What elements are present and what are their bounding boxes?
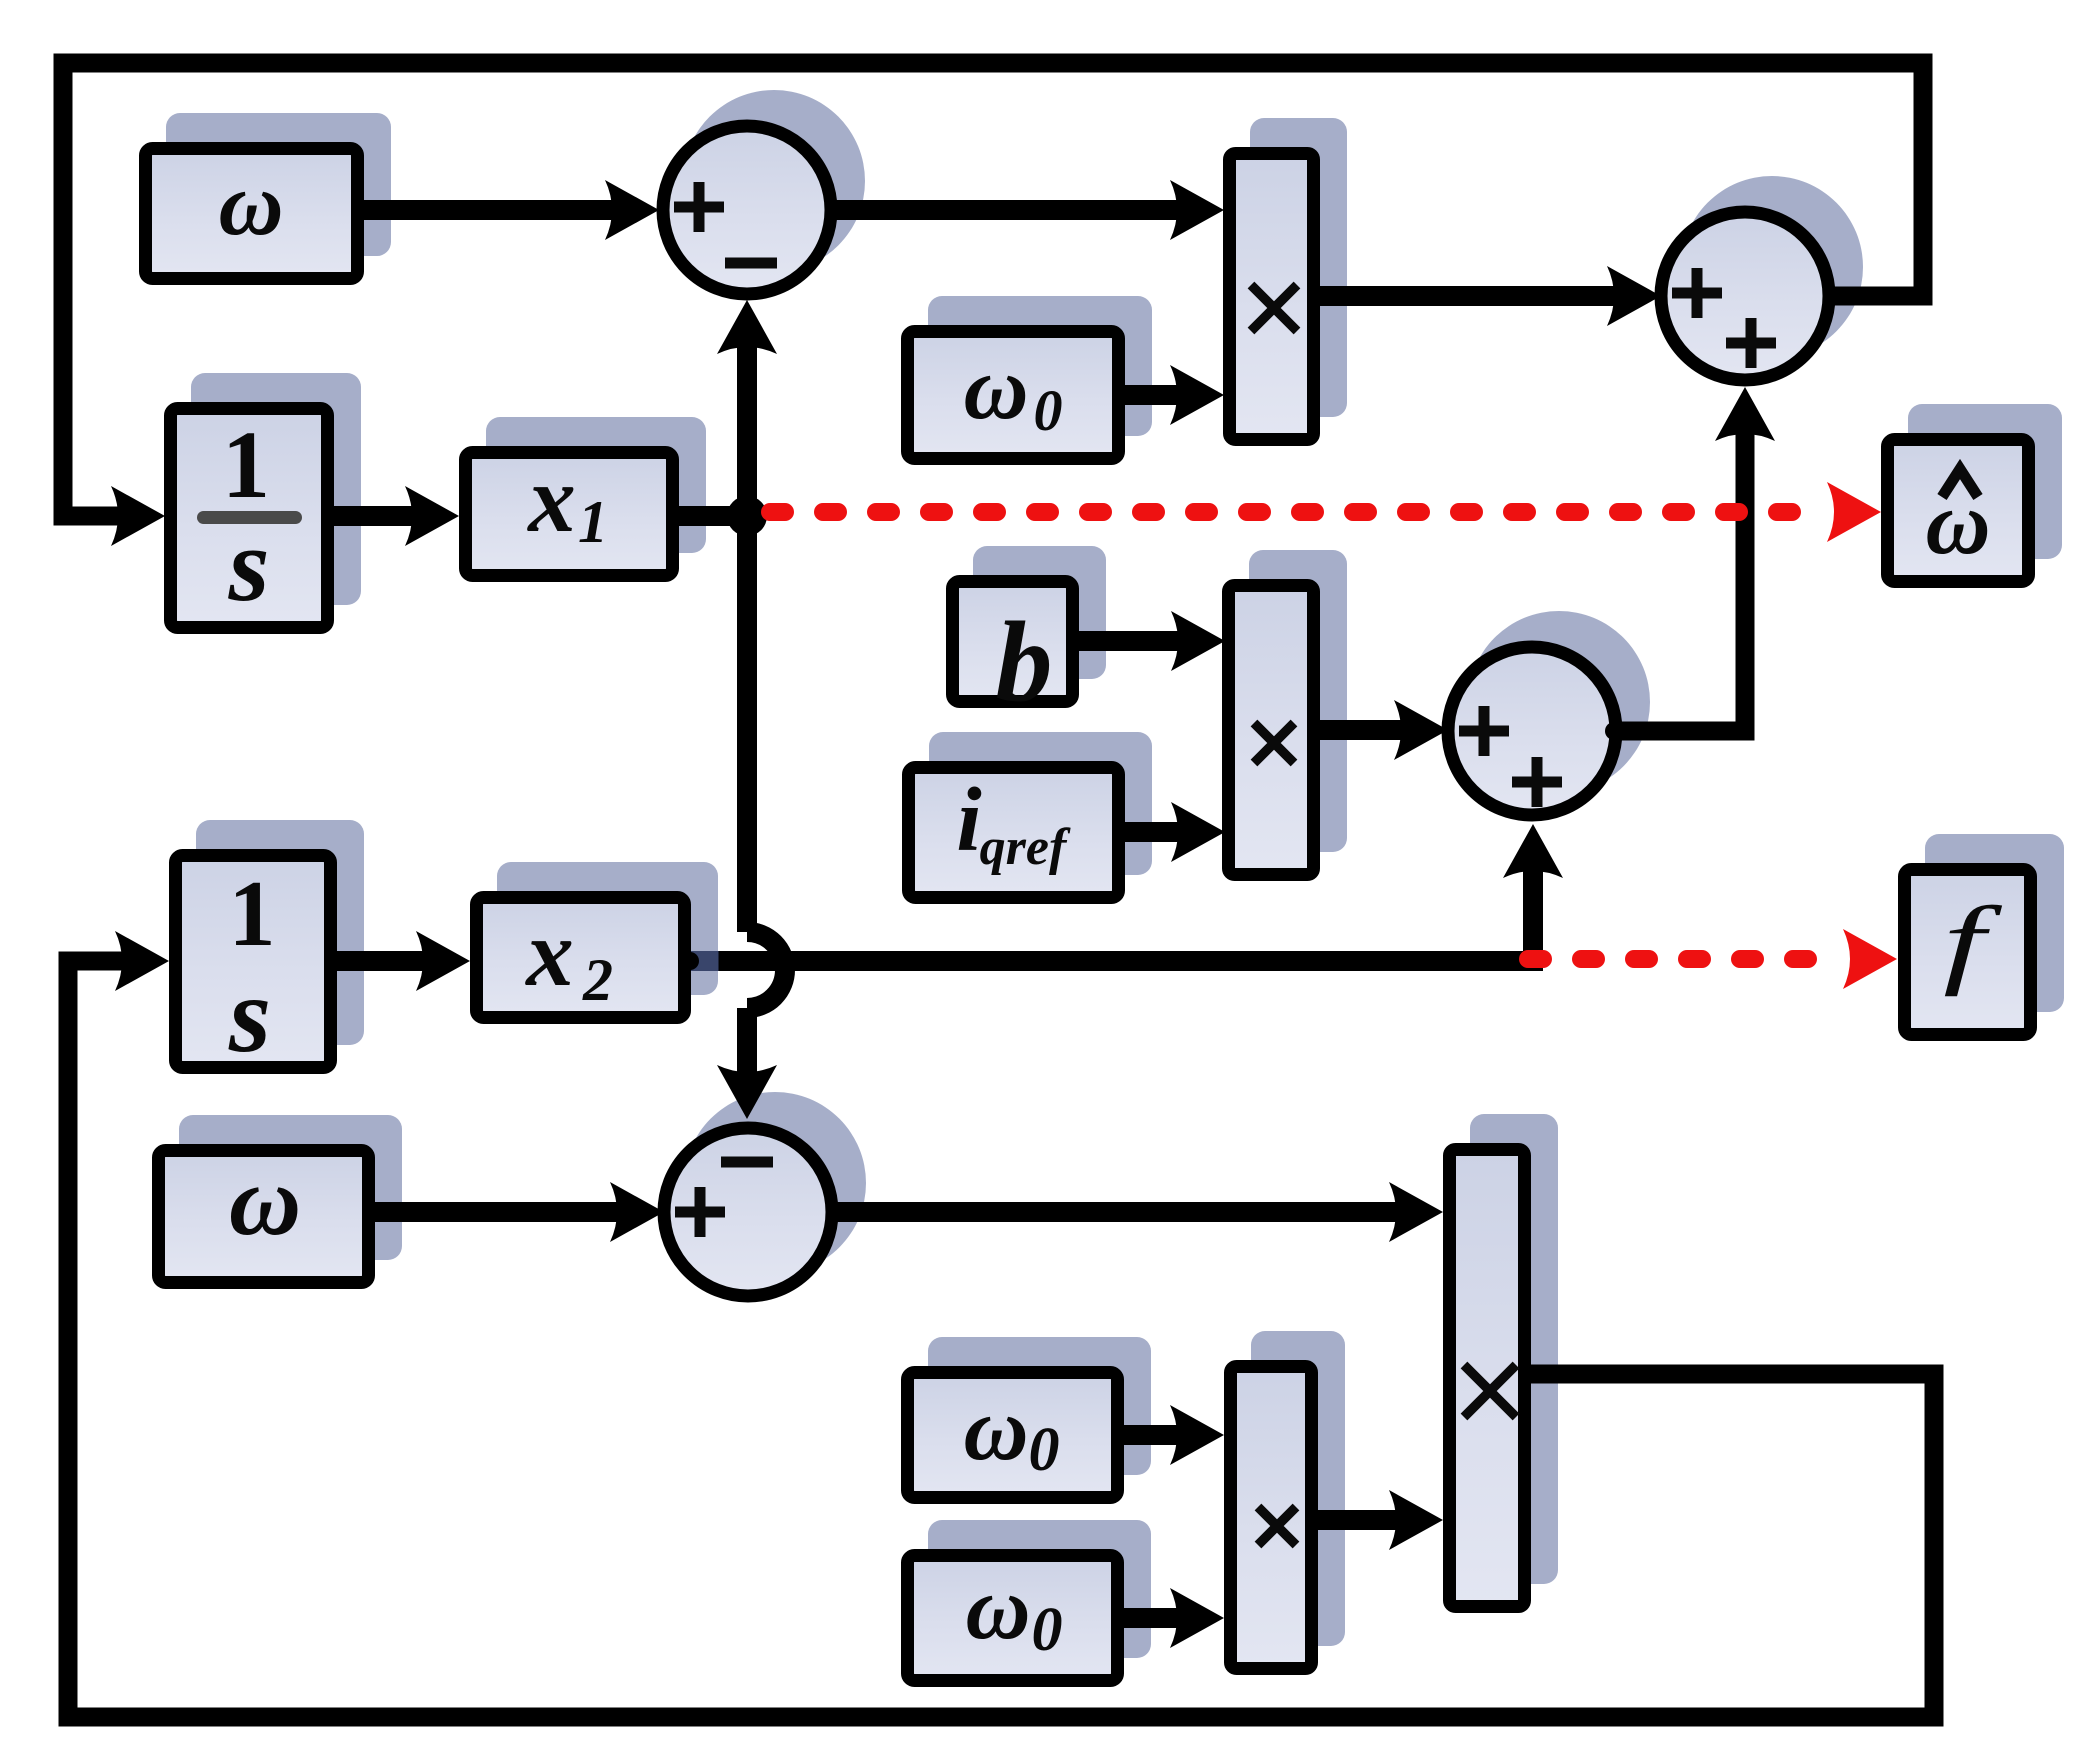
wire iqref to multiplier X2: [1119, 802, 1225, 862]
wire multiplier X4 to multiplier X3: [1316, 1490, 1443, 1550]
feedback wire multiplier X3 output around bottom border to integrator 1/s(bottom): [68, 931, 1934, 1717]
svg-text:qref: qref: [980, 819, 1071, 876]
wire integrator 1/s(top) to x1: [332, 486, 459, 546]
multiplier X1: [1230, 154, 1314, 440]
feedback wire sum S2 output around top border to integrator 1/s(top): [63, 63, 1923, 546]
block b: [953, 582, 1073, 726]
wire junction node up to sum S1 minus input: [717, 300, 777, 520]
sum junction S1 (+ -): [663, 126, 831, 294]
block integrator 1/s (bottom): [176, 856, 331, 1076]
sum junction S4 (+ +): [1448, 647, 1616, 815]
svg-text:ω: ω: [965, 1559, 1030, 1658]
wire omega0(bottom) to multiplier X4: [1120, 1588, 1224, 1648]
svg-text:1: 1: [578, 489, 608, 555]
svg-text:x: x: [524, 900, 574, 1006]
junction node after x1: [727, 496, 767, 536]
wire omega0(mid) to multiplier X4: [1120, 1405, 1224, 1465]
block omega (top input): [146, 149, 358, 279]
svg-text:ω: ω: [963, 1380, 1028, 1479]
svg-text:b: b: [996, 598, 1053, 725]
block omega-hat output: [1888, 440, 2029, 582]
wire sum S1 to multiplier X1: [836, 180, 1224, 240]
× operator glyph: [1254, 723, 1294, 763]
block omega0 (mid): [908, 1373, 1118, 1498]
svg-text:1: 1: [222, 411, 270, 518]
block omega0 (top): [908, 332, 1119, 459]
wire integrator 1/s(bottom) to x2: [335, 931, 470, 991]
× operator glyph: [1251, 285, 1297, 331]
x2 shadow overlapping wire (translucent navy patch): [691, 951, 719, 971]
× operator glyph: [1258, 1507, 1296, 1545]
wire junction node down to bridge: [737, 512, 757, 932]
svg-text:0: 0: [1034, 378, 1063, 443]
wire x1 to junction node: [677, 506, 747, 526]
block omega0 (bottom): [908, 1556, 1118, 1681]
svg-text:0: 0: [1032, 1596, 1063, 1664]
wire multiplier X1 to sum S2: [1318, 266, 1661, 326]
wire omega0(top) to multiplier X1: [1120, 365, 1224, 425]
svg-text:ω: ω: [218, 155, 283, 254]
svg-text:ω: ω: [1925, 474, 1990, 573]
svg-text:s: s: [228, 506, 270, 623]
svg-text:1: 1: [229, 862, 276, 966]
wire sum S4 output up to sum S2 plus input: [1614, 387, 1775, 731]
wire sum S3 to multiplier X3: [836, 1182, 1443, 1242]
red dashed wire junction to omega-hat: [770, 482, 1881, 542]
svg-text:ω: ω: [963, 339, 1028, 438]
multiplier X3 (big): [1450, 1150, 1525, 1607]
bridge hop over x2 wire: [747, 932, 785, 1008]
output port dots: [324, 201, 1843, 1627]
wire omega(top) to sum S1: [355, 180, 659, 240]
wire bridge down to sum S3 minus input: [717, 1008, 777, 1119]
wire b to multiplier X2: [1077, 611, 1225, 671]
block iqref: [909, 768, 1119, 898]
svg-text:s: s: [228, 956, 271, 1075]
svg-text:ω: ω: [229, 1145, 301, 1256]
× operator glyph: [1464, 1365, 1516, 1417]
block x1: [466, 446, 673, 576]
multiplier X2: [1229, 586, 1314, 875]
red dashed wire x2-branch to f: [1528, 929, 1897, 989]
wire omega(bottom) to sum S3: [370, 1182, 664, 1242]
wire f-branch corner up to sum S4 plus input: [1503, 824, 1563, 961]
sum junction S3 (+ -): [664, 1128, 832, 1296]
svg-text:0: 0: [1029, 1416, 1060, 1484]
svg-text:i: i: [956, 769, 981, 870]
svg-text:2: 2: [582, 947, 613, 1013]
block x2: [477, 898, 685, 1018]
block integrator 1/s (top): [171, 409, 328, 628]
block omega (bottom input): [159, 1145, 369, 1283]
wire x2 output to f-branch corner: [689, 951, 1543, 971]
block f output: [1905, 870, 2031, 1035]
svg-text:x: x: [526, 446, 576, 552]
wire multiplier X2 to sum S4: [1318, 700, 1448, 760]
multiplier X4 (small): [1231, 1367, 1312, 1669]
sum junction S2 (+ +): [1661, 212, 1829, 380]
